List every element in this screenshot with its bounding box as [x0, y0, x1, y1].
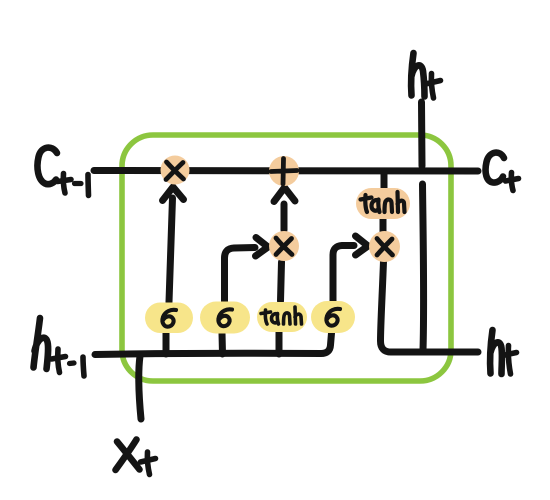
label h_t (right) — [490, 330, 502, 374]
wire: output line to h_t (right, from x3 down and right) — [381, 261, 479, 352]
wire: x2 to plus arrow shaft — [281, 204, 288, 230]
arrowhead into x1 — [163, 187, 184, 201]
stem below tanh gate — [276, 331, 283, 354]
wire: hidden state line h (bottom horizontal) with hook to sigma4 — [95, 333, 332, 355]
tanh text (orange oval) — [361, 195, 372, 212]
wire: cell state line C (top horizontal) — [94, 167, 478, 175]
sigma1 glyph — [162, 310, 176, 327]
op x1 glyph — [166, 162, 184, 180]
op plus circle — [269, 156, 299, 186]
wire: C branch down into tanh oval — [381, 174, 388, 189]
sigma2 glyph — [218, 309, 232, 326]
wire: h_t branch upward through box — [422, 102, 424, 350]
op plus glyph — [271, 159, 297, 185]
wire: input x_t drop — [139, 356, 141, 419]
LSTM cell boundary (green rounded box) — [122, 135, 451, 381]
sigma4 glyph — [326, 309, 340, 326]
arrowhead into x3 — [356, 236, 369, 255]
wire: sigma2 up and right to x2 — [225, 248, 256, 303]
wire: sigma4 up and right to x3 — [333, 246, 354, 302]
tanh oval (orange, on C branch) — [356, 188, 410, 219]
tanh gate text — [261, 310, 271, 324]
label h_{t-1} — [34, 318, 49, 369]
gate sigma1 (yellow pill) — [145, 303, 193, 334]
gate sigma2 (yellow pill) — [200, 302, 250, 334]
wire: tanh gate to x2 stem — [281, 262, 282, 301]
arrowhead into plus — [274, 188, 295, 202]
label C_t (right) — [486, 153, 504, 183]
wire: sigma1 to x1 arrow shaft — [169, 198, 173, 302]
op x2 circle — [269, 231, 299, 261]
stem below sigma2 — [219, 333, 227, 354]
stem below sigma1 — [163, 333, 170, 354]
gate sigma4 (yellow pill) — [311, 301, 355, 333]
op x1 circle — [161, 156, 190, 185]
op x2 glyph — [276, 238, 292, 255]
label C_{t-1} — [37, 148, 57, 185]
arrowhead into x2 — [256, 238, 269, 257]
label x_t (bottom) — [116, 440, 140, 471]
wire: tanh oval to x3 stem — [380, 218, 387, 232]
op x3 circle — [369, 231, 400, 262]
label h_t (top) — [411, 53, 424, 97]
gate tanh (yellow pill) — [257, 302, 307, 332]
op x3 glyph — [377, 239, 393, 256]
